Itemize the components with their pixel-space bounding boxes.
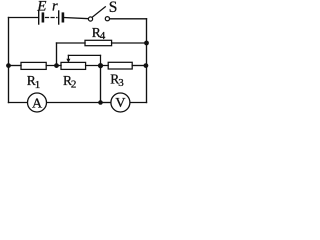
switch S right contact circle (105, 17, 109, 21)
wire: R1 to node (46, 65, 61, 67)
junction node: R1-R2 / R4 branch (54, 63, 59, 68)
wire: voltmeter branch vertical (100, 66, 102, 103)
rheostat slider horizontal link (68, 54, 100, 56)
rheostat slider link drop to R2-R3 node (100, 55, 102, 65)
svg-text:E: E (36, 0, 46, 15)
rheostat R2 arrowhead (66, 59, 70, 63)
svg-text:S: S (109, 0, 118, 16)
junction node: left vertical / R1 (6, 63, 11, 68)
wire: R4 branch horizontal left (57, 42, 86, 44)
battery short thick plate left (42, 14, 45, 22)
wire: top from left corner to battery (9, 17, 39, 19)
wire: battery to switch (64, 18, 88, 19)
junction node: R3 right on right vertical (144, 63, 149, 68)
rheostat R2 slider arrow stem (67, 55, 69, 59)
battery internal dashed wire (46, 17, 58, 19)
wire: bottom junction to ammeter (46, 102, 100, 104)
svg-text:V: V (115, 96, 125, 111)
resistor R2 box (rheostat) (61, 62, 86, 69)
junction node: R2-R3 / slider / voltmeter branch (98, 63, 103, 68)
junction node: bottom wire / voltmeter branch (98, 100, 103, 105)
wire: bottom right corner to voltmeter (130, 102, 147, 104)
wire: right vertical (146, 19, 148, 103)
voltmeter V circle (111, 93, 130, 112)
wire: R4 to right vertical (112, 42, 147, 44)
battery short thick plate right (62, 14, 65, 22)
wire: R3 to right vertical (132, 65, 146, 67)
wire: left vertical (8, 18, 10, 103)
resistor R4 box (85, 40, 112, 45)
resistor R1 box (21, 62, 46, 69)
resistor R3 box (108, 62, 132, 69)
switch S blade (92, 7, 105, 17)
battery right long plate (58, 11, 60, 24)
switch S left contact circle (88, 17, 92, 21)
wire: voltmeter to bottom junction (101, 102, 111, 104)
svg-text:r: r (52, 0, 58, 14)
wire: ammeter to bottom-left corner (9, 102, 28, 104)
junction node: R4 right on right vertical (144, 41, 149, 46)
wire: R2 to node (86, 65, 109, 67)
svg-text:A: A (32, 96, 43, 111)
wire: R4 branch vertical from R1-R2 node (56, 43, 58, 66)
wire: switch to top-right corner (110, 18, 147, 20)
ammeter A circle (28, 93, 47, 112)
wire: left node to R1 (9, 65, 22, 67)
battery E r (cell plates, left long plate) (38, 11, 40, 24)
